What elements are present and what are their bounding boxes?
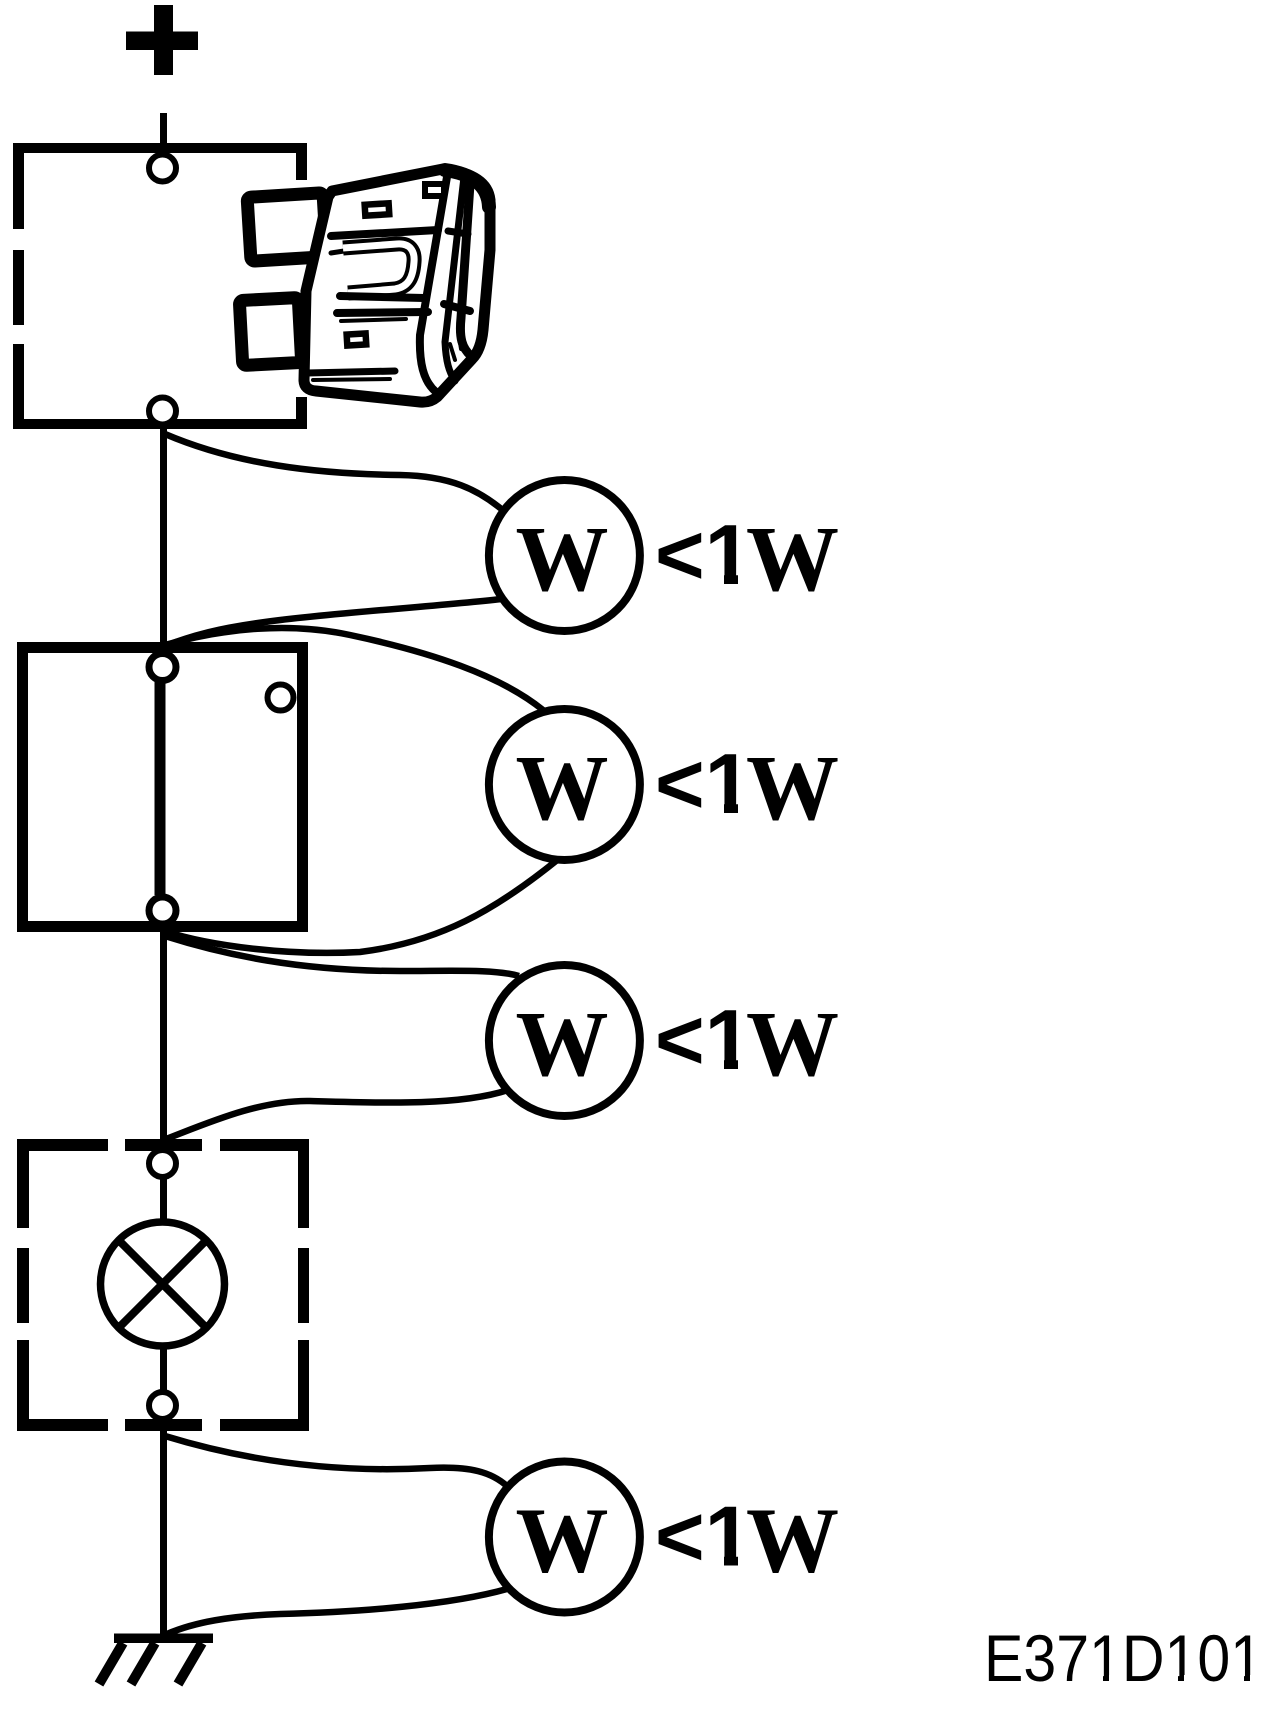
svg-text:W: W (516, 1490, 609, 1593)
svg-text:W: W (746, 737, 839, 840)
svg-text:W: W (516, 508, 609, 611)
svg-text:<1: <1 (655, 1490, 752, 1585)
svg-text:<1: <1 (655, 508, 752, 603)
svg-text:<1: <1 (655, 737, 752, 832)
svg-text:E371D101: E371D101 (984, 1621, 1263, 1695)
svg-text:W: W (516, 737, 609, 840)
svg-text:W: W (516, 993, 609, 1096)
svg-text:W: W (746, 508, 839, 611)
svg-text:W: W (746, 1490, 839, 1593)
svg-text:W: W (746, 993, 839, 1096)
svg-text:<1: <1 (655, 993, 752, 1088)
